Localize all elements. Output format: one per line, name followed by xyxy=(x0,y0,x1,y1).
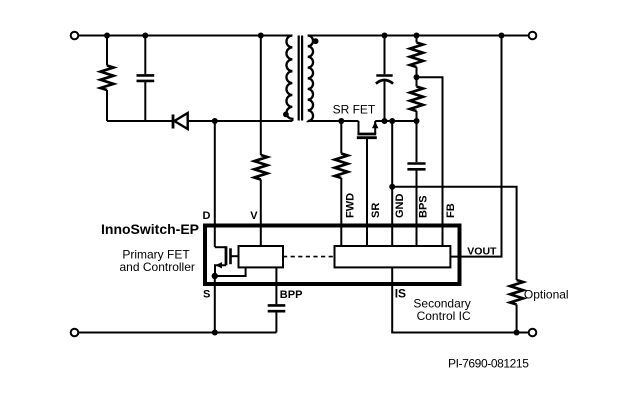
svg-text:BPS: BPS xyxy=(418,195,430,218)
wire source to controller xyxy=(215,267,246,276)
node output cap top xyxy=(382,33,388,39)
transformer core xyxy=(298,36,300,121)
wire GND pin xyxy=(391,121,393,246)
node S rail xyxy=(212,330,218,336)
wire SR pin xyxy=(366,138,368,246)
controller primary box xyxy=(239,246,284,267)
resistor optional xyxy=(510,280,523,333)
wire D pin xyxy=(214,121,216,247)
svg-text:PI-7690-081215: PI-7690-081215 xyxy=(448,356,529,370)
node output cap bottom xyxy=(382,118,388,124)
wire BPP pin xyxy=(275,267,277,304)
controller secondary box xyxy=(335,246,451,267)
output terminal positive xyxy=(529,32,537,40)
resistor FWD xyxy=(335,121,348,246)
svg-text:InnoSwitch-EP: InnoSwitch-EP xyxy=(101,221,199,237)
svg-text:V: V xyxy=(250,210,258,222)
node BPS divider bottom xyxy=(414,118,420,124)
svg-text:BPP: BPP xyxy=(280,289,303,301)
resistor divider lower xyxy=(410,77,423,121)
wire clamp bottom right xyxy=(188,120,293,122)
svg-text:Control IC: Control IC xyxy=(417,309,471,323)
transformer secondary winding xyxy=(308,36,313,122)
svg-text:FB: FB xyxy=(445,203,457,218)
node drain xyxy=(212,118,218,124)
transformer primary phase dot xyxy=(283,112,289,118)
svg-text:IS: IS xyxy=(395,286,406,300)
node bias resistor top xyxy=(258,33,264,39)
svg-text:SR FET: SR FET xyxy=(333,103,376,117)
wire secondary return right xyxy=(375,120,416,122)
wire FB pin xyxy=(417,77,443,246)
capacitor output electrolytic xyxy=(376,36,393,122)
node FWD tap xyxy=(338,118,344,124)
transformer secondary phase dot xyxy=(313,38,319,44)
resistor divider upper xyxy=(410,36,423,78)
wire bottom-left rail xyxy=(78,332,276,334)
node optional tap xyxy=(389,184,395,190)
communication link dashed xyxy=(283,256,335,258)
node FB tap xyxy=(414,74,420,80)
node VOUT feedback top xyxy=(499,33,505,39)
primary FET xyxy=(215,246,239,276)
svg-text:FWD: FWD xyxy=(344,193,356,218)
output terminal negative xyxy=(529,329,537,337)
wire top-right rail xyxy=(308,35,529,37)
input terminal negative xyxy=(71,329,79,337)
svg-text:VOUT: VOUT xyxy=(467,245,497,257)
wire VOUT xyxy=(450,36,501,257)
input terminal positive xyxy=(71,32,79,40)
svg-text:GND: GND xyxy=(394,194,406,219)
svg-text:D: D xyxy=(203,210,211,222)
svg-text:SR: SR xyxy=(370,203,382,218)
wire clamp bottom left xyxy=(107,120,173,122)
capacitor BPP xyxy=(268,305,286,332)
svg-text:Optional: Optional xyxy=(524,288,569,302)
capacitor BPS xyxy=(407,121,425,246)
wire top-left rail xyxy=(78,35,292,37)
resistor clamp xyxy=(101,36,114,122)
node clamp resistor top xyxy=(104,33,110,39)
node divider top xyxy=(414,33,420,39)
IC InnoSwitch-EP outline xyxy=(205,226,460,285)
capacitor clamp xyxy=(137,36,155,122)
SR FET xyxy=(357,121,379,138)
svg-text:and Controller: and Controller xyxy=(120,260,195,274)
node GND tap xyxy=(389,118,395,124)
wire optional feedback xyxy=(392,187,516,280)
svg-text:S: S xyxy=(203,289,210,301)
resistor bias V pin xyxy=(254,36,267,247)
node optional bottom xyxy=(514,330,520,336)
node clamp capacitor top xyxy=(142,33,148,39)
wire secondary return left xyxy=(308,120,359,122)
node source xyxy=(212,273,218,279)
wire IS pin xyxy=(392,267,529,332)
diode clamp xyxy=(173,113,188,129)
wire S pin xyxy=(214,276,216,333)
transformer primary winding xyxy=(286,36,292,122)
